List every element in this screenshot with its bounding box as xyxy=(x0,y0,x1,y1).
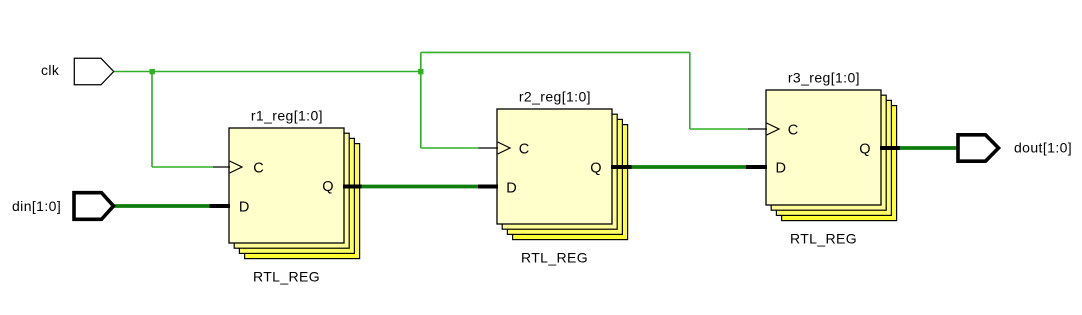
pin stub (thin black) into r1 pin C xyxy=(213,166,230,168)
output port dout[1:0] (pentagon symbol, bus) xyxy=(958,135,999,161)
junction J1 on clk net xyxy=(150,69,155,74)
svg-text:Q: Q xyxy=(859,141,870,157)
wire clk net: top horizontal run to r3 xyxy=(421,51,690,53)
pin stub (thick black) out of r3 pin Q xyxy=(880,146,900,150)
r3 stack sheet 2 xyxy=(771,95,886,210)
svg-text:din[1:0]: din[1:0] xyxy=(12,198,61,214)
r2 stack sheet 3 xyxy=(507,119,622,234)
register r1_reg[1:0] (RTL_REG, 2-bit stack) xyxy=(229,108,360,285)
svg-text:D: D xyxy=(239,199,249,215)
register r3_reg[1:0] (RTL_REG, 2-bit stack) xyxy=(766,70,897,247)
pin stub (thick black) out of r1 pin Q xyxy=(343,185,362,189)
wire r1_reg Q to r2_reg D: thick green bus xyxy=(362,185,479,189)
r1 stack sheet 3 xyxy=(239,138,354,253)
svg-text:r2_reg[1:0]: r2_reg[1:0] xyxy=(519,89,591,105)
junction J2 on clk net xyxy=(418,69,423,74)
r3 stack sheet 4 (back) xyxy=(782,106,897,221)
wire r2_reg Q to r3_reg D: thick green bus xyxy=(632,165,747,169)
pin stub (thick black) into r1 pin D xyxy=(210,204,231,208)
r1 clock triangle at pin C xyxy=(230,161,242,173)
svg-text:C: C xyxy=(253,160,263,176)
wire clk net: horizontal into r3 C xyxy=(690,128,748,130)
svg-text:dout[1:0]: dout[1:0] xyxy=(1014,140,1072,156)
svg-text:D: D xyxy=(506,180,516,196)
r2 stack sheet 4 (back) xyxy=(513,125,628,240)
input port din[1:0] (pentagon symbol, bus) xyxy=(74,193,114,220)
svg-text:C: C xyxy=(519,141,529,157)
r3 clock triangle at pin C xyxy=(767,123,779,135)
pin stub (thick black) out of r2 pin Q xyxy=(611,165,632,169)
register r2_reg[1:0] (RTL_REG, 2-bit stack) xyxy=(497,89,628,266)
wire clk net: horizontal into r1 C xyxy=(152,166,213,168)
svg-text:Q: Q xyxy=(590,160,601,176)
pin stub (thick black) into r3 pin D xyxy=(746,165,767,169)
r3 body (front sheet) xyxy=(766,90,881,205)
svg-text:C: C xyxy=(788,122,798,138)
r2 stack sheet 2 xyxy=(502,114,617,229)
r1 body (front sheet) xyxy=(229,128,344,243)
svg-text:r1_reg[1:0]: r1_reg[1:0] xyxy=(251,108,323,124)
wire clk net: vertical up from junction J2 xyxy=(420,52,422,72)
r1 stack sheet 4 (back) xyxy=(245,144,360,259)
pin stub (thin black) into r2 pin C xyxy=(479,147,499,149)
svg-text:RTL_REG: RTL_REG xyxy=(253,268,320,284)
pin stub (thin black) into r3 pin C xyxy=(748,128,767,130)
wire din net: thick green bus from din port to r1 D stub xyxy=(114,204,210,208)
svg-text:clk: clk xyxy=(41,62,60,78)
pin stub (thick black) into r2 pin D xyxy=(478,185,498,189)
input port clk (pentagon symbol) xyxy=(74,58,113,85)
svg-text:RTL_REG: RTL_REG xyxy=(521,249,588,265)
r2 clock triangle at pin C xyxy=(498,142,510,154)
svg-text:RTL_REG: RTL_REG xyxy=(790,230,857,246)
r2 body (front sheet) xyxy=(497,109,612,224)
wire clk net: vertical drop from junction J2 to r2 C level xyxy=(420,72,422,149)
r1 stack sheet 2 xyxy=(234,133,349,248)
wire dout net: thick green bus from r3 Q stub to dout port xyxy=(900,146,958,150)
wire clk net: vertical drop at x=690 to r3 C level xyxy=(689,52,691,129)
r3 stack sheet 3 xyxy=(776,100,891,215)
svg-text:Q: Q xyxy=(322,179,333,195)
svg-text:r3_reg[1:0]: r3_reg[1:0] xyxy=(788,70,860,86)
wire clk net: horizontal into r2 C xyxy=(421,147,479,149)
wire clk net: horizontal from clk port to junction J2 xyxy=(114,71,421,73)
svg-text:D: D xyxy=(776,160,786,176)
wire clk net: vertical drop from junction J1 to r1 C level xyxy=(151,71,153,167)
